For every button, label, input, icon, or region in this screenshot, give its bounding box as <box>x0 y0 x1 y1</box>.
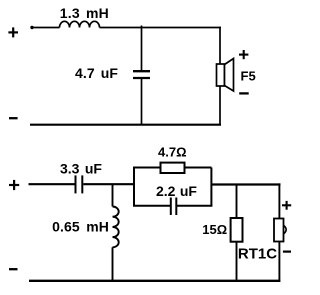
wire bottom of tweeter loop <box>29 280 280 282</box>
inductor L1 1.3 mH <box>60 21 100 27</box>
wire right edge of woofer loop <box>219 27 221 126</box>
wire box to right edge <box>211 183 280 185</box>
svg-text:0.65 mH: 0.65 mH <box>52 219 109 235</box>
wire right edge upper (to tweeter) <box>278 183 280 219</box>
svg-text:15Ω: 15Ω <box>202 222 227 237</box>
tweeter + polarity <box>282 201 291 210</box>
wire top left to inductor <box>31 27 60 29</box>
wire 15 ohm branch lower <box>236 242 238 281</box>
speaker F5 + polarity <box>239 50 248 59</box>
parallel RC box outline <box>133 168 212 206</box>
svg-text:2.2 uF: 2.2 uF <box>156 183 197 199</box>
svg-text:F5: F5 <box>241 68 256 83</box>
terminal + (woofer section input) <box>8 27 18 37</box>
wire tweeter lower <box>278 242 280 282</box>
wire tweeter input to series capacitor <box>29 183 76 185</box>
speaker F5 (woofer) <box>217 59 234 92</box>
wire capacitor to parallel box <box>83 183 134 185</box>
wire bottom of woofer loop <box>30 124 221 126</box>
wire 15 ohm branch upper <box>236 185 238 219</box>
resistor R2 15 ohm <box>231 218 243 242</box>
wire inductor to top-right corner <box>100 27 222 29</box>
capacitor C2 3.3 uF <box>76 175 83 193</box>
speaker F5 - polarity <box>239 92 249 94</box>
terminal - (woofer section input) <box>9 117 18 119</box>
terminal + (tweeter section input) <box>9 180 19 190</box>
wire inductor branch upper <box>112 184 114 206</box>
capacitor C3 2.2 uF <box>171 198 177 216</box>
resistor R1 4.7 ohm <box>161 163 185 173</box>
svg-text:3.3 uF: 3.3 uF <box>60 161 102 177</box>
tweeter - polarity <box>283 251 291 253</box>
svg-text:RT1C: RT1C <box>238 245 277 262</box>
terminal - (tweeter section input) <box>9 268 18 270</box>
wire capacitor branch lower <box>141 79 143 125</box>
inductor L2 0.65 mH (vertical) <box>113 207 119 248</box>
node dot at woofer + input <box>30 26 33 29</box>
svg-text:4.7Ω: 4.7Ω <box>158 145 187 160</box>
svg-text:4.7 uF: 4.7 uF <box>75 65 118 81</box>
wire inductor branch lower <box>112 247 114 281</box>
svg-text:1.3 mH: 1.3 mH <box>60 5 109 21</box>
capacitor C1 4.7 uF <box>133 71 150 78</box>
wire capacitor branch upper <box>141 26 143 71</box>
tweeter RT1C symbol <box>274 219 286 242</box>
